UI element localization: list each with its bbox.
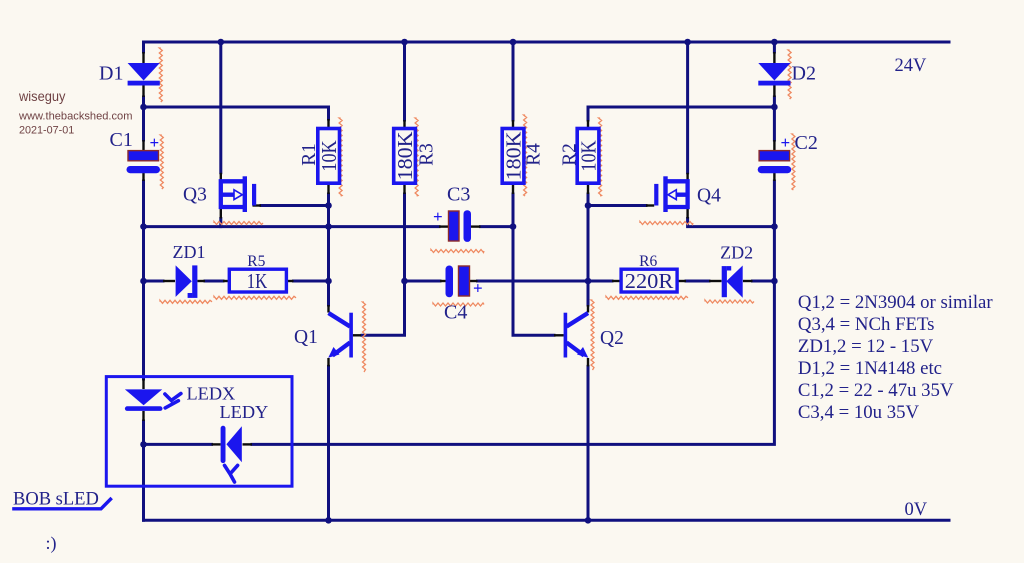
pin stubs: R2 <box>587 120 589 129</box>
pin stubs: C3 <box>439 225 449 227</box>
wire: R5 right to node column <box>294 280 329 283</box>
sketch mark: under R6 <box>606 296 688 299</box>
capacitor C2 <box>759 151 790 161</box>
pin stubs: Q1 <box>327 305 329 313</box>
wire: Q3 source drop to node row <box>219 219 222 227</box>
wire: R3 bottom to C4-left junction <box>403 194 406 281</box>
wire: bottom 0V rail <box>144 519 950 522</box>
junction: C3 right / R4 column <box>510 223 517 230</box>
svg-text:Q1,2 = 2N3904 or similar: Q1,2 = 2N3904 or similar <box>798 292 993 313</box>
svg-text:www.thebackshed.com: www.thebackshed.com <box>18 111 132 123</box>
svg-text:ZD1,2 = 12 - 15V: ZD1,2 = 12 - 15V <box>798 336 934 357</box>
wire: D2 top drop from rail <box>773 42 776 52</box>
junction: rail / R3 <box>401 39 408 46</box>
pin stubs: ZD1 <box>163 280 175 282</box>
wire: C3-right junction down to Q2 base <box>513 227 554 336</box>
junction: R3 column / C4 left <box>401 278 408 285</box>
junction: LEDX cathode / LEDY anode <box>140 441 147 448</box>
junction: D2 cathode node <box>771 104 778 111</box>
sketch mark: under R5 <box>214 296 296 299</box>
wire: Q4 gate line <box>588 204 646 207</box>
svg-text:BOB sLED: BOB sLED <box>13 490 99 510</box>
svg-text:C1: C1 <box>110 129 133 151</box>
svg-text:1K: 1K <box>247 269 268 293</box>
pin stubs: D1 <box>142 52 144 63</box>
svg-text:C3,4 = 10u 35V: C3,4 = 10u 35V <box>798 402 920 423</box>
transistor Q2 (NPN) <box>564 313 568 358</box>
resistor R2 <box>577 129 599 184</box>
sketch mark: right of D2 <box>788 50 791 99</box>
wire: C4-left junction down to Q1 base <box>362 281 405 335</box>
svg-text:wiseguy: wiseguy <box>18 89 66 104</box>
svg-text:C3: C3 <box>447 184 470 206</box>
pin stubs: D2 <box>773 52 775 63</box>
sketch mark: under Q3 <box>214 222 263 225</box>
junction: left column / source row <box>140 223 147 230</box>
sketch mark: right of Q2 <box>591 300 594 370</box>
pin stubs: LEDX <box>142 379 144 389</box>
junction: R6 / Q2 collector column <box>585 278 592 285</box>
svg-text:180K: 180K <box>393 132 417 181</box>
pin stubs: R1 <box>327 119 329 128</box>
capacitor C3 <box>449 211 460 241</box>
sketch mark: right of R1 <box>339 118 342 196</box>
svg-text:LEDX: LEDX <box>187 384 236 404</box>
wire: R4 bottom to C3-right junction <box>512 194 515 227</box>
junction: R1 bottom / Q3 gate <box>325 202 332 209</box>
wire: source row / C3 left line <box>144 225 440 228</box>
wire: C3 right to R4 column <box>481 225 514 228</box>
sketch mark: right of D1 <box>159 48 162 102</box>
wire: ZD1 cathode to R5 <box>205 280 223 283</box>
junction: rail / Q4 drain <box>684 39 691 46</box>
junction: left column / ZD1 <box>140 278 147 285</box>
svg-text:D2: D2 <box>792 63 816 85</box>
svg-text:R2: R2 <box>559 143 581 166</box>
LED LEDX <box>125 389 162 405</box>
junction: D1 cathode node <box>140 104 147 111</box>
svg-text:Q4: Q4 <box>697 186 721 207</box>
svg-text:220R: 220R <box>625 269 674 293</box>
svg-text:10K: 10K <box>317 140 341 171</box>
wire: D1 cathode to R1 top (node B) <box>144 107 329 119</box>
pin stubs: ZD2 <box>709 280 722 282</box>
wire: R3 top drop from rail <box>403 42 406 120</box>
pin stubs: Q4 <box>686 173 688 181</box>
sketch mark: under ZD2 <box>705 300 754 303</box>
junction: rail / R4 <box>510 39 517 46</box>
sketch mark: right of R2 <box>599 118 602 196</box>
diode D1 <box>128 63 160 81</box>
pin stubs: Q3 <box>220 173 222 181</box>
junction: rail / Q3 drain <box>218 39 225 46</box>
wire: C4 right to R6 junction <box>478 280 589 283</box>
junction: source row / Q1 collector column <box>325 223 332 230</box>
junction: Q1 emitter / 0V rail <box>325 517 332 524</box>
sketch mark: right of C1 <box>160 135 163 189</box>
pin stubs: LEDY <box>212 443 221 445</box>
wire: Q1 emitter to 0V <box>327 366 330 520</box>
svg-text:R3: R3 <box>416 143 438 166</box>
pin stubs: R4 <box>512 120 514 129</box>
wire: ZD1 anode from left column <box>144 280 164 283</box>
resistor R5 <box>229 269 286 292</box>
wire: Q4 source to right column <box>688 219 775 227</box>
sketch mark: under Q4 <box>640 222 693 225</box>
wire: Q3 gate line <box>261 204 329 207</box>
svg-text:+: + <box>781 133 791 152</box>
capacitor C1 <box>128 151 159 161</box>
svg-text:C2: C2 <box>795 132 818 154</box>
wire: R4 top drop from rail <box>512 42 515 120</box>
svg-text:Q3: Q3 <box>183 185 207 206</box>
wire: R6 left stub wire <box>588 280 612 283</box>
wire: R6 to ZD2 <box>686 280 709 283</box>
junction: R2 bottom / Q4 gate <box>585 202 592 209</box>
diode D2 <box>758 63 790 81</box>
svg-text:+: + <box>473 279 483 298</box>
resistor R1 <box>318 129 340 184</box>
junction: ZD2 / right column <box>771 278 778 285</box>
sketch mark: right of C2 <box>792 134 795 190</box>
svg-text:ZD2: ZD2 <box>720 243 753 263</box>
wire: Q2 emitter to 0V <box>587 366 590 520</box>
wire: 24V top rail <box>144 41 950 44</box>
sketch mark: right of R4 <box>524 115 527 196</box>
junction: Q2 emitter / 0V rail <box>585 517 592 524</box>
junction: rail / D2 <box>771 39 778 46</box>
wire: R2 bottom to Q4 gate/Q2 collector column <box>587 194 590 305</box>
pin stubs: R6 <box>612 280 621 282</box>
svg-text:R6: R6 <box>639 253 657 270</box>
sketch mark: under C3 <box>431 250 484 253</box>
transistor Q3 (N-channel FET) <box>221 181 243 207</box>
svg-text:Q3,4 = NCh FETs: Q3,4 = NCh FETs <box>798 314 935 335</box>
svg-text:0V: 0V <box>905 500 928 520</box>
junction: Q4 source / right column <box>771 223 778 230</box>
LED LEDY <box>221 426 226 463</box>
svg-text:Q2: Q2 <box>600 328 624 349</box>
svg-text:LEDY: LEDY <box>220 402 269 422</box>
module box BOB sLED <box>106 377 292 487</box>
svg-text:R4: R4 <box>523 143 545 166</box>
resistor R3 <box>394 129 416 184</box>
sketch mark: right of R3 <box>415 118 418 196</box>
capacitor C4 <box>446 266 454 298</box>
wire: left main vertical (net A, anode column) <box>142 42 145 52</box>
sketch mark: right of Q1 <box>363 302 366 372</box>
pin stubs: R3 <box>403 120 405 129</box>
wire: ZD2 to right column <box>753 280 775 283</box>
svg-text:ZD1: ZD1 <box>173 242 206 262</box>
svg-text:C1,2 = 22 - 47u 35V: C1,2 = 22 - 47u 35V <box>798 380 954 401</box>
wire: right column C2 to LEDY line <box>252 181 774 444</box>
pin stubs: C2 <box>773 140 775 150</box>
svg-text:C4: C4 <box>444 302 467 324</box>
wire: LEDY anode line to left junction <box>144 443 212 446</box>
svg-text:+: + <box>433 207 443 226</box>
wire: Q3 drain drop from rail <box>219 42 222 173</box>
transistor Q4 (N-channel FET) <box>667 181 687 207</box>
svg-text::): :) <box>46 533 57 554</box>
resistor R6 <box>621 269 677 292</box>
resistor R4 <box>502 129 524 184</box>
zener diode ZD1 <box>176 265 192 297</box>
transistor Q1 (NPN) <box>349 313 353 358</box>
wire: D2 cathode to C2 <box>773 97 776 140</box>
svg-text:Q1: Q1 <box>294 327 318 348</box>
svg-text:+: + <box>150 133 160 152</box>
zener diode ZD2 <box>726 266 742 298</box>
leader line under BOB sLED <box>12 498 112 509</box>
svg-text:R1: R1 <box>298 143 320 166</box>
wire: Q4 drain drop from rail <box>686 42 689 173</box>
svg-text:D1,2 = 1N4148 etc: D1,2 = 1N4148 etc <box>798 358 942 379</box>
junction: R5 / Q1 collector column <box>325 278 332 285</box>
pin stubs: R5 <box>223 280 230 282</box>
sketch mark: under ZD1 <box>160 300 212 303</box>
svg-text:D1: D1 <box>99 63 123 85</box>
wire: R2 top from D2 branch <box>588 107 774 120</box>
svg-text:2021-07-01: 2021-07-01 <box>19 124 74 136</box>
pin stubs: Q2 <box>587 305 589 313</box>
wire: R1 bottom to gate/collector column <box>327 194 330 305</box>
sketch mark: under C4 <box>433 303 484 306</box>
svg-text:24V: 24V <box>895 56 928 76</box>
wire: C4 left from R3 junction <box>405 280 441 283</box>
pin stubs: C4 <box>440 280 446 282</box>
svg-text:R5: R5 <box>247 253 265 270</box>
pin stubs: C1 <box>142 140 144 150</box>
